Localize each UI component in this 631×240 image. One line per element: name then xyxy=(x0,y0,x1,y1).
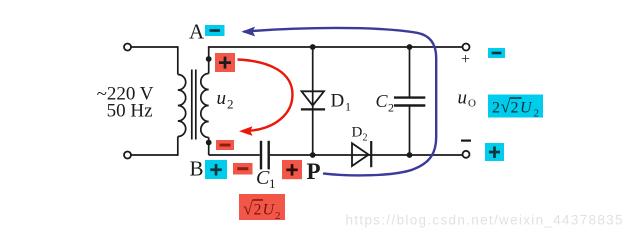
label D2 xyxy=(352,125,368,144)
annotation box cyan 2 sqrt2 U2 xyxy=(488,95,543,120)
wire top rail xyxy=(208,46,463,48)
svg-text:A: A xyxy=(189,20,205,44)
annotation box red minus left of C1 xyxy=(233,163,253,175)
svg-text:2: 2 xyxy=(254,202,262,219)
terminal output bottom xyxy=(463,151,470,158)
label output minus xyxy=(461,140,471,142)
capacitor C1 xyxy=(261,141,269,170)
wire top-left horizontal xyxy=(131,46,178,48)
svg-text:u: u xyxy=(217,88,227,109)
label C1 xyxy=(256,167,276,191)
annotation box cyan minus at A xyxy=(205,25,225,36)
transformer core xyxy=(192,70,196,140)
svg-text:U: U xyxy=(263,202,276,219)
svg-text:https://blog.csdn.net/weixin_4: https://blog.csdn.net/weixin_44378835 xyxy=(346,212,623,227)
svg-text:U: U xyxy=(520,100,533,117)
svg-text:P: P xyxy=(307,159,321,184)
label u2 xyxy=(217,88,234,112)
label D1 xyxy=(331,91,352,114)
terminal top-left xyxy=(124,44,131,51)
svg-text:C: C xyxy=(256,167,270,189)
svg-text:2: 2 xyxy=(363,133,368,144)
annotation box red sqrt2 U2 xyxy=(239,194,285,222)
node C2 top junction xyxy=(407,44,413,50)
svg-text:B: B xyxy=(190,157,204,181)
svg-text:u: u xyxy=(458,88,468,109)
svg-text:2: 2 xyxy=(492,100,500,117)
wire secondary top leg xyxy=(208,47,210,74)
annotation box red minus u2 bottom xyxy=(216,140,234,150)
svg-text:+: + xyxy=(461,51,470,68)
transformer primary winding xyxy=(178,75,186,137)
diode D1 xyxy=(301,91,325,109)
wire bottom rail right of C1 xyxy=(270,154,463,156)
diode D1 vertical branch wire xyxy=(312,47,314,155)
terminal bottom-left xyxy=(124,152,131,159)
transformer secondary winding xyxy=(201,74,209,138)
label C2 xyxy=(376,91,395,115)
node B junction xyxy=(206,140,212,146)
wire bottom-left horizontal xyxy=(131,154,178,156)
capacitor C2 branch wire bottom xyxy=(409,107,411,156)
node D1 top junction xyxy=(310,44,316,50)
svg-text:C: C xyxy=(376,91,389,111)
svg-text:2: 2 xyxy=(227,97,234,112)
svg-text:√: √ xyxy=(243,199,253,219)
svg-text:2: 2 xyxy=(275,210,281,222)
capacitor C2 branch wire top xyxy=(409,47,411,97)
label uO xyxy=(458,88,477,110)
red current loop arrow xyxy=(238,60,293,136)
capacitor C2 xyxy=(394,98,425,106)
annotation box red plus right of C1 xyxy=(282,160,302,179)
blue current loop arrow xyxy=(241,27,436,176)
annotation box cyan plus at B xyxy=(205,160,227,179)
svg-text:√: √ xyxy=(501,97,511,117)
wire bottom rail left of C1 xyxy=(209,154,260,156)
terminal output top xyxy=(463,44,470,51)
diode D2 xyxy=(352,141,371,167)
svg-text:D: D xyxy=(331,91,345,112)
svg-text:1: 1 xyxy=(269,176,276,191)
annotation box red plus u2 top xyxy=(215,53,235,72)
annotation box cyan plus output bottom xyxy=(485,143,504,161)
svg-text:D: D xyxy=(352,125,363,141)
svg-text:1: 1 xyxy=(345,100,351,114)
wire secondary bottom leg xyxy=(208,138,210,156)
svg-text:2: 2 xyxy=(388,101,394,115)
wire primary top leg xyxy=(177,46,179,74)
node secondary top junction xyxy=(206,56,212,62)
svg-text:50 Hz: 50 Hz xyxy=(107,101,153,122)
node P junction xyxy=(310,152,316,158)
svg-text:O: O xyxy=(468,98,476,110)
annotation box cyan minus output top xyxy=(488,48,505,58)
svg-text:2: 2 xyxy=(511,100,519,117)
svg-text:2: 2 xyxy=(534,108,540,120)
node C2 bottom junction xyxy=(407,152,413,158)
wire primary bottom leg xyxy=(177,137,179,156)
